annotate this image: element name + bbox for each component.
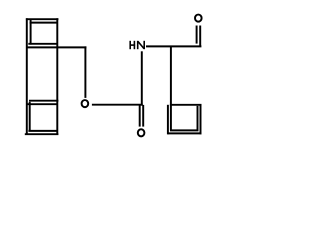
- phenyl ring right inner double-bond line: [197, 106, 199, 131]
- phenyl ring right outer edge: [200, 105, 202, 135]
- wire bond ring to CH2 (upper chord): [26, 46, 86, 48]
- atom label O (ester): [82, 100, 89, 107]
- aldehyde C=O double bond line 2: [199, 26, 201, 47]
- phenyl ring bottom outer edge: [167, 132, 201, 134]
- carbamate C=O double bond line 1: [139, 105, 141, 127]
- bond alpha C to phenyl ring / ring left inner double-bond line: [170, 46, 172, 130]
- benzene ring (benzyl) lower chord inner double-bond line: [26, 103, 57, 105]
- bond N to carbamate C vertical: [141, 51, 143, 105]
- benzene ring (benzyl) upper left inner double-bond line: [30, 20, 32, 45]
- bond ester O to carbamate C: [92, 104, 143, 106]
- atom label O (carbamate carbonyl): [138, 129, 145, 136]
- benzene ring (benzyl) lower chord: [29, 100, 58, 102]
- benzene ring (benzyl) bottom outer edge: [25, 133, 59, 135]
- aldehyde C=O double bond line 1: [196, 26, 198, 44]
- carbamate C=O double bond line 2: [142, 105, 144, 127]
- benzene ring (benzyl) top inner double-bond line: [30, 22, 58, 24]
- benzene ring (benzyl) top outer edge: [26, 18, 59, 20]
- atom label HN (amide): [130, 41, 145, 49]
- benzene ring (benzyl) upper chord inner double-bond line: [28, 43, 57, 45]
- benzene ring (benzyl) lower left inner double-bond line: [29, 102, 31, 132]
- atom label O (aldehyde): [195, 15, 202, 22]
- phenyl ring bottom inner double-bond line: [170, 129, 199, 131]
- bond CH2 to ester O vertical: [84, 46, 86, 98]
- benzene ring (benzyl) bottom inner double-bond line: [28, 130, 57, 132]
- benzene ring (benzyl) right outer edge: [56, 18, 58, 135]
- phenyl ring left outer edge: [167, 105, 169, 135]
- bond N to alpha C and alpha C to CHO: [146, 45, 201, 47]
- phenyl ring top edge: [170, 104, 202, 106]
- benzene ring (benzyl) left outer edge: [26, 18, 28, 135]
